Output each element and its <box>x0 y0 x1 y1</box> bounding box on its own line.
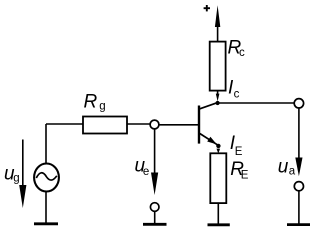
svg-text:R: R <box>84 91 98 112</box>
ground (under source) <box>34 222 58 225</box>
svg-text:u: u <box>278 157 289 178</box>
resistor Rc <box>210 42 226 91</box>
svg-text:c: c <box>239 47 245 59</box>
svg-text:g: g <box>13 173 19 185</box>
wire (RE bottom to ground) <box>217 203 219 225</box>
svg-text:a: a <box>289 166 296 178</box>
label + (supply) <box>204 5 210 11</box>
wire (input terminal to transistor base) <box>159 124 198 126</box>
terminal (below u_e arrow) <box>150 203 159 212</box>
svg-text:E: E <box>235 146 243 158</box>
terminal (output node, open circle) <box>294 99 303 108</box>
wire (output terminal down to u_a arrow) <box>298 108 300 160</box>
junction dot (emitter node) <box>216 144 220 148</box>
resistor Rg <box>83 117 127 134</box>
voltage arrow u_g <box>19 140 26 209</box>
junction dot (collector node) <box>216 101 220 105</box>
wire (Rc top to supply arrow) <box>217 26 219 42</box>
terminal (input node, open circle) <box>150 120 159 129</box>
wire (u_a terminal to ground) <box>298 191 300 225</box>
wire (source top to corner) <box>45 124 47 164</box>
ground (under u_e terminal) <box>143 223 167 226</box>
svg-text:g: g <box>99 100 105 112</box>
voltage arrow u_a <box>295 158 302 177</box>
transistor Q1 (npn BJT) <box>199 103 218 145</box>
ground (under u_a terminal) <box>287 223 310 226</box>
wire (source bottom to ground) <box>45 192 47 224</box>
current arrow I_E <box>217 149 221 154</box>
voltage arrow u_e <box>151 129 158 195</box>
supply arrow (+) <box>215 5 220 27</box>
resistor RE <box>210 153 226 203</box>
ground (under RE) <box>208 223 230 226</box>
svg-text:e: e <box>143 166 149 178</box>
wire (Rg right to input terminal) <box>127 123 150 125</box>
wire (u_e terminal to ground) <box>154 211 156 224</box>
current arrow I_C <box>216 91 220 102</box>
svg-text:E: E <box>241 169 249 181</box>
terminal (below u_a arrow) <box>294 182 303 191</box>
wire (collector node to output terminal) <box>218 102 295 104</box>
svg-text:c: c <box>234 89 240 101</box>
voltage source G (sine generator) <box>34 164 59 192</box>
wire (corner to Rg left) <box>46 123 83 125</box>
